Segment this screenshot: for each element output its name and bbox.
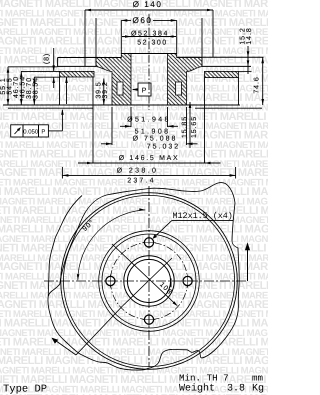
feature control frame: runout 0.050 P (11, 125, 49, 137)
ext line d140 right (212, 10, 214, 58)
vertical centreline (148, 186, 150, 367)
caliper contour arc upper-left (48, 196, 82, 297)
svg-text:0.050: 0.050 (23, 128, 39, 135)
drum inner wall left / ext d146.5 (92, 77, 94, 164)
outer surface line left (8, 66, 58, 68)
drum outer wall right (238, 78, 240, 105)
ring bottom extension left (34, 76, 60, 78)
svg-text:Kg: Kg (252, 383, 264, 394)
svg-text:Weight: Weight (179, 382, 215, 394)
leader arrow lower-left (52, 338, 76, 355)
ext d75 left (111, 107, 113, 145)
ext line d60 left (120, 20, 122, 53)
FCF leader (48, 130, 62, 132)
bolt hole 2 (106, 276, 115, 285)
diagonal axis NW-SE with bolt circle arrow (112, 244, 176, 305)
keyway mark right of bore (170, 278, 172, 287)
svg-text:P: P (142, 88, 148, 95)
svg-text:Type DP: Type DP (3, 384, 47, 395)
flange top face left (58, 57, 122, 59)
svg-text:Ø 140: Ø 140 (133, 0, 163, 9)
svg-text:15.85: 15.85 (182, 116, 189, 138)
flange/ring top face right (177, 56, 264, 58)
bolt hole 3 (183, 276, 192, 285)
bolt hole 1 (144, 238, 153, 247)
drum edge circles (99, 231, 200, 332)
centre bore (double) (124, 256, 174, 306)
drum bottom edge left (8, 107, 93, 109)
ext d238 left (61, 167, 63, 179)
svg-text:15.65: 15.65 (191, 116, 198, 138)
ext d51.948 left (130, 107, 132, 127)
svg-text:75.032: 75.032 (147, 143, 180, 150)
svg-text:P: P (41, 128, 45, 135)
svg-text:Ø 238.0: Ø 238.0 (117, 166, 159, 174)
ring top extension left (21, 70, 60, 72)
disc outer circle (double) (61, 193, 238, 370)
svg-text:Ø 146.5 MAX: Ø 146.5 MAX (119, 154, 180, 162)
drum outer wall left (59, 77, 61, 105)
flange bottom face right (202, 65, 251, 67)
hat outer wall extension left (95, 18, 97, 66)
svg-text:52.300: 52.300 (137, 39, 167, 46)
rotation arrow right (247, 250, 249, 282)
svg-text:M12x1.5 (x4): M12x1.5 (x4) (173, 211, 233, 221)
svg-text:237.4: 237.4 (127, 178, 156, 185)
datum P label (138, 83, 151, 96)
ext d75 right (186, 107, 188, 145)
ext line d60 right (176, 20, 178, 53)
90 degree arc dimension (78, 210, 146, 280)
step edge left (57, 58, 59, 67)
hat outer wall extension right (201, 18, 203, 66)
friction ring section hatch right (205, 71, 239, 77)
drum inner wall right / ext d146.5 (204, 78, 206, 164)
hub cross-section hatch left (96, 54, 131, 106)
svg-text:Ø 75.088: Ø 75.088 (133, 134, 178, 142)
drum bottom edge right (195, 107, 262, 109)
svg-text:Min. TH 7: Min. TH 7 (179, 372, 229, 383)
pointer at ring underside (66, 77, 68, 104)
svg-text:38.54: 38.54 (33, 77, 40, 99)
diagonal axis SW-NE (122, 258, 172, 307)
friction ring section hatch left (60, 71, 95, 77)
ext d238 right (235, 167, 237, 179)
svg-text:(8): (8) (43, 53, 51, 64)
bolt hole 4 (144, 315, 153, 324)
svg-text:14.8: 14.8 (246, 27, 253, 44)
ring top ext right (239, 70, 252, 72)
svg-text:Ø60: Ø60 (133, 16, 153, 25)
axis centerline (148, 14, 150, 110)
bolt circle (dash-dot) (110, 242, 187, 319)
hat top face (121, 53, 176, 55)
svg-text:74.6: 74.6 (253, 76, 260, 93)
svg-text:3.8: 3.8 (227, 383, 245, 394)
horizontal centreline (44, 280, 248, 282)
flange bottom face left (58, 65, 96, 67)
outer silhouette (max contour) (48, 183, 239, 371)
ext d51.948 right (167, 107, 169, 127)
ext line d140 left (84, 10, 86, 66)
svg-text:mm: mm (252, 372, 264, 383)
hub cross-section hatch right (168, 54, 203, 106)
hub bottom face (3, 104, 240, 106)
svg-text:Ø51.948: Ø51.948 (127, 115, 171, 123)
